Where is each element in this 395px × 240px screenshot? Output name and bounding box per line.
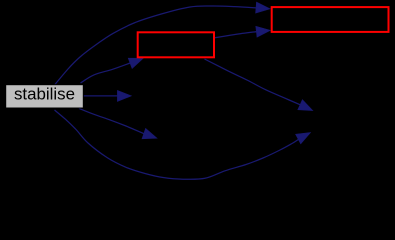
edge stabilise to hidden node C (bottom curve): [55, 110, 311, 179]
edge stabilise to hidden node A (horizontal): [84, 90, 132, 101]
edge red node 1 to red node 2: [214, 26, 270, 38]
node stabilise (grey filled box with label): [6, 85, 84, 108]
red node 2 (empty red-outlined box, top right): [272, 7, 389, 32]
red node 1 (empty red-outlined box, middle): [138, 32, 214, 57]
edge red node 1 to hidden node D: [205, 59, 313, 111]
edge stabilise to red node 1: [81, 58, 144, 83]
edge stabilise to hidden node B (diagonal): [79, 108, 157, 138]
edge stabilise to red node 2 (top curve): [55, 2, 271, 85]
svg-text:stabilise: stabilise: [14, 85, 75, 104]
doxygen-style call graph on transparent(black) background: [0, 0, 395, 185]
